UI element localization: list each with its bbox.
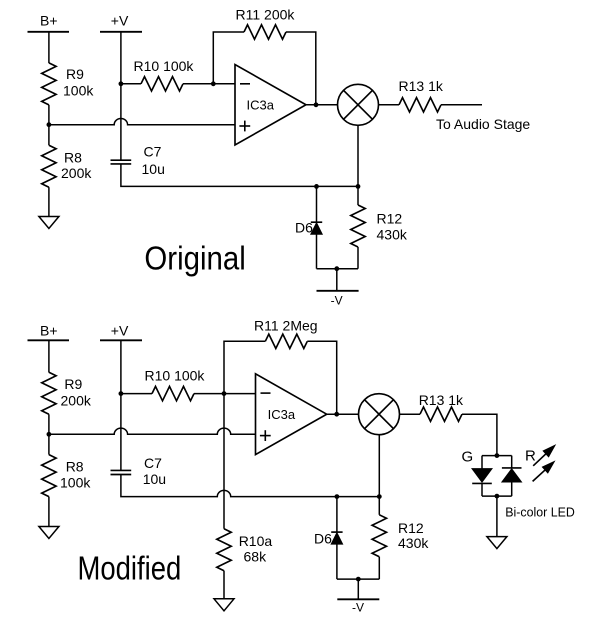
mixer symbol (Original) <box>338 84 379 125</box>
resistor R10 100k (Original) <box>141 77 183 91</box>
wire rail to R12/mixer column <box>317 185 359 187</box>
svg-text:200k: 200k <box>61 165 92 181</box>
node junction (rail/mixer/R12) <box>356 184 361 189</box>
svg-text:Original: Original <box>144 240 245 277</box>
node junction (+V/R10/C7) <box>119 391 124 396</box>
diode D6 (Modified) <box>336 497 338 532</box>
wire <box>48 187 50 216</box>
svg-text:R11 2Meg: R11 2Meg <box>254 317 318 333</box>
wire non-inverting input with hops <box>49 428 256 434</box>
wire <box>48 32 50 63</box>
wire <box>48 340 50 372</box>
node junction (inverting input) <box>222 391 227 396</box>
diode D6 (Original) <box>316 186 318 222</box>
wire feedback left/top (Modified) <box>224 341 265 393</box>
wire LED box top rail <box>482 455 512 457</box>
wire <box>223 571 225 599</box>
resistor R9 200k (Modified) <box>42 372 56 414</box>
wire inverting input <box>224 393 256 395</box>
svg-text:-V: -V <box>331 294 343 308</box>
wire <box>400 413 421 415</box>
svg-text:R9: R9 <box>64 376 82 392</box>
ground (below R10a) <box>214 599 234 611</box>
ground (below R8, Modified) <box>39 527 59 539</box>
wire <box>121 83 141 85</box>
svg-text:10u: 10u <box>142 161 165 177</box>
wire <box>379 104 400 106</box>
wire LED box bottom rail <box>482 495 512 497</box>
LED R diode (red, cathode up) <box>511 456 513 468</box>
capacitor C7 10u (Modified) <box>111 469 132 471</box>
node junction (rail/mixer/R12) <box>377 494 382 499</box>
wire feedback top/right (Original) <box>286 32 316 105</box>
resistor R13 1k (Original) <box>399 98 441 112</box>
mixer symbol (Modified) <box>359 394 400 435</box>
node output junction <box>314 102 319 107</box>
wire LED to ground <box>496 496 498 536</box>
resistor R11 2Meg (Modified) <box>265 334 307 348</box>
wire mixer bottom <box>378 435 380 497</box>
wire bottom rail (Original) <box>317 268 359 270</box>
node junction (R9/R8/+input) <box>47 122 52 127</box>
resistor R13 1k (Modified) <box>420 407 462 421</box>
supply -V (Original) <box>336 269 338 291</box>
node junction (-V) <box>334 266 339 271</box>
wire <box>48 105 50 145</box>
LED G diode (green, cathode down) <box>481 456 483 469</box>
svg-text:R10 100k: R10 100k <box>145 367 206 383</box>
wire non-inverting input with hop <box>49 119 235 125</box>
svg-text:Modified: Modified <box>78 550 182 587</box>
node junction (R9/R8/+input) <box>47 432 52 437</box>
wire to audio stage <box>441 104 482 106</box>
svg-text:C7: C7 <box>144 455 162 471</box>
wire <box>121 393 152 395</box>
wire +V vertical to C7 <box>120 340 122 470</box>
svg-text:R8: R8 <box>66 458 84 474</box>
svg-text:C7: C7 <box>144 144 162 160</box>
LED emission arrow 1 <box>533 453 546 466</box>
svg-text:IC3a: IC3a <box>268 407 296 422</box>
op-amp IC3a (Modified) <box>256 374 327 455</box>
svg-text:R11 200k: R11 200k <box>236 7 296 23</box>
resistor R11 200k (Original) <box>244 25 286 39</box>
svg-text:430k: 430k <box>398 535 429 551</box>
svg-text:10u: 10u <box>143 471 166 487</box>
wire op-amp output <box>306 104 338 106</box>
svg-text:200k: 200k <box>61 393 92 409</box>
node junction (-V) <box>356 577 361 582</box>
svg-text:100k: 100k <box>60 475 91 491</box>
svg-text:B+: B+ <box>40 13 58 29</box>
wire R10a column <box>223 394 225 529</box>
wire <box>194 393 224 395</box>
ground (below LED) <box>487 537 507 549</box>
svg-text:IC3a: IC3a <box>247 98 275 113</box>
svg-text:R13 1k: R13 1k <box>419 392 464 408</box>
wire feedback left/top (Original) <box>213 32 244 84</box>
wire <box>48 497 50 527</box>
svg-text:R10a: R10a <box>239 533 273 549</box>
svg-text:G: G <box>462 449 474 466</box>
svg-text:D6: D6 <box>295 220 313 236</box>
svg-text:R10 100k: R10 100k <box>134 58 195 74</box>
node junction (D6 top) <box>335 494 340 499</box>
svg-text:B+: B+ <box>40 323 58 339</box>
wire <box>48 414 50 454</box>
wire <box>183 83 213 85</box>
resistor R9 100k (Original) <box>42 63 56 105</box>
wire inverting input <box>213 83 235 85</box>
svg-text:R: R <box>525 447 536 464</box>
node junction (inverting input) <box>211 81 216 86</box>
svg-text:To Audio Stage: To Audio Stage <box>436 116 530 132</box>
resistor R10a 68k (Modified) <box>217 529 231 571</box>
svg-text:Bi-color LED: Bi-color LED <box>505 505 575 520</box>
wire C7 bottom rail with hop <box>121 475 379 497</box>
svg-text:R9: R9 <box>66 66 84 82</box>
node output junction <box>334 412 339 417</box>
node junction (LED top) <box>495 453 500 458</box>
node junction (D6 top) <box>314 184 319 189</box>
resistor R8 200k (Original) <box>42 145 56 187</box>
svg-text:+V: +V <box>111 13 129 29</box>
LED emission arrow 2 <box>533 469 546 481</box>
ground (below R8, Original) <box>39 217 59 229</box>
op-amp IC3a (Original) <box>235 65 306 146</box>
svg-text:R12: R12 <box>398 520 424 536</box>
resistor R8 100k (Modified) <box>42 455 56 497</box>
wire +V vertical to C7 <box>120 32 122 160</box>
svg-text:-V: -V <box>352 601 364 615</box>
resistor R10 100k (Modified) <box>152 386 194 400</box>
supply -V (Modified) <box>357 579 359 599</box>
wire mixer bottom <box>357 125 359 186</box>
capacitor C7 10u (Original) <box>111 159 132 161</box>
wire to LED <box>462 414 497 455</box>
svg-text:R13 1k: R13 1k <box>399 78 444 94</box>
wire C7 bottom to rail <box>121 164 317 187</box>
svg-text:68k: 68k <box>244 548 268 564</box>
wire bottom rail (Modified) <box>337 578 379 580</box>
node junction (+V/R10/C7) <box>119 81 124 86</box>
svg-text:430k: 430k <box>377 227 408 243</box>
svg-text:R8: R8 <box>64 149 82 165</box>
svg-text:+V: +V <box>111 323 129 339</box>
resistor R12 430k (Modified) <box>378 497 380 515</box>
svg-text:R12: R12 <box>377 211 403 227</box>
svg-text:D6: D6 <box>314 531 332 547</box>
wire feedback top/right (Modified) <box>307 341 336 414</box>
wire op-amp output <box>327 413 359 415</box>
svg-text:100k: 100k <box>63 82 94 98</box>
resistor R12 430k (Original) <box>357 186 359 205</box>
node junction (LED bottom) <box>495 494 500 499</box>
